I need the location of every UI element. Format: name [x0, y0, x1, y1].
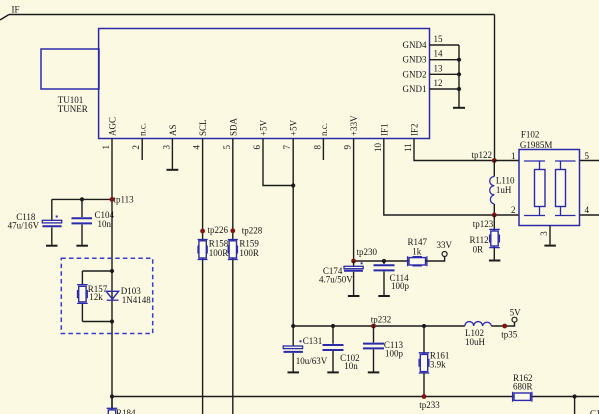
svg-text:5V: 5V [510, 308, 521, 318]
svg-text:IF1: IF1 [379, 123, 389, 136]
svg-text:GND1: GND1 [403, 84, 427, 94]
filter F102 right transducer [555, 161, 576, 216]
wire F102 pin 1 stub [494, 151, 519, 161]
pin 1 (AGC) wire and labels [101, 117, 118, 414]
svg-text:1N4148: 1N4148 [122, 295, 151, 305]
filter F102 left transducer [524, 161, 545, 216]
svg-text:+33V: +33V [349, 115, 359, 136]
junction C104 top [80, 197, 84, 201]
resistor R112 0R [470, 215, 500, 260]
tuner TU101 RF connector box [41, 49, 99, 114]
ground bar for GND pins [453, 107, 465, 109]
wire tp113 rail to capacitors [52, 198, 112, 200]
svg-text:3: 3 [539, 231, 549, 236]
svg-text:6: 6 [252, 145, 262, 150]
junction C102 top [331, 324, 335, 328]
capacitor C102 10n [323, 326, 360, 372]
svg-text:33V: 33V [437, 240, 453, 250]
junction GND1 [457, 87, 461, 91]
svg-text:10u/63V: 10u/63V [296, 356, 328, 366]
svg-text:GND4: GND4 [403, 40, 427, 50]
svg-text:R112: R112 [470, 235, 489, 245]
svg-text:100R: 100R [209, 248, 229, 258]
ground bar at pin 3 [167, 169, 179, 171]
svg-text:+5V: +5V [289, 119, 299, 136]
dashed option box [61, 258, 152, 333]
svg-text:tp228: tp228 [242, 225, 263, 235]
svg-text:5: 5 [222, 145, 232, 150]
inductor L102 10uH [465, 322, 492, 347]
svg-text:GND2: GND2 [403, 69, 427, 79]
node tp228 [230, 225, 262, 235]
pin 14 GND3 stub [403, 49, 460, 65]
capacitor C104 10n [72, 199, 115, 244]
svg-text:R184: R184 [116, 408, 136, 414]
svg-text:4: 4 [192, 145, 202, 150]
svg-text:tp233: tp233 [419, 400, 440, 410]
resistor R147 1k [408, 237, 428, 266]
node tp230 [351, 247, 377, 263]
svg-text:15: 15 [434, 34, 444, 44]
svg-text:tp232: tp232 [371, 314, 392, 324]
wire F102 pin 5 stub [580, 151, 599, 161]
ground bar C174 [348, 295, 360, 297]
svg-text:13: 13 [434, 63, 444, 73]
svg-text:R158: R158 [209, 238, 229, 248]
pin 3 (AS) stub [161, 124, 178, 169]
ground bar R112 [489, 260, 501, 262]
wire 33V feed from tp230 [354, 260, 409, 262]
pin 15 GND4 stub [403, 34, 460, 50]
svg-text:1k: 1k [412, 246, 422, 256]
junction D103 anode [110, 269, 114, 273]
terminal 33V [437, 240, 453, 257]
svg-text:GND3: GND3 [403, 55, 427, 65]
tuner TU101 block outline [99, 29, 430, 139]
junction GND3 [457, 58, 461, 62]
svg-text:3: 3 [161, 145, 171, 150]
ground bar C113 [368, 371, 380, 373]
svg-text:2: 2 [131, 145, 141, 150]
svg-text:F102: F102 [521, 129, 540, 139]
ground bar C104 [76, 245, 88, 247]
inductor L110 1uH [490, 161, 515, 216]
svg-text:tp122: tp122 [471, 150, 492, 160]
svg-text:100p: 100p [385, 348, 404, 358]
svg-text:tp113: tp113 [114, 194, 135, 204]
wire bottom bus [112, 396, 599, 398]
node tp233 [419, 394, 440, 410]
capacitor C118 47u/16V electrolytic [8, 199, 62, 244]
pin 8 (n.c.) stub [312, 123, 329, 160]
junction bus left [110, 394, 114, 398]
svg-text:10uH: 10uH [465, 337, 486, 347]
svg-text:100p: 100p [391, 281, 410, 291]
pin 5 (SDA) wire [222, 117, 239, 414]
svg-text:G1985M: G1985M [520, 140, 553, 150]
svg-text:680R: 680R [513, 382, 533, 392]
pin 11 (IF2) wire down and right to tp122 [403, 123, 494, 160]
ground bar F102 pin 3 [544, 245, 556, 247]
wire drop at right of bus [574, 397, 576, 414]
wire IF vertical drop to tp122 [494, 15, 496, 161]
resistor R158 100R [198, 238, 229, 259]
capacitor C114 100p [374, 261, 410, 295]
terminal 5V [510, 308, 521, 323]
svg-text:IF2: IF2 [410, 123, 420, 136]
resistor R161 3.9k [419, 326, 450, 397]
resistor R162 680R [513, 373, 533, 402]
svg-text:n.c.: n.c. [319, 123, 329, 136]
wire R147 to 33V terminal [426, 257, 445, 261]
pin 10 (IF1) wire down and right [373, 123, 519, 215]
pin 7 (+5V) wire down to rail [282, 119, 299, 326]
svg-text:IF: IF [12, 5, 20, 15]
svg-text:AS: AS [168, 124, 178, 136]
svg-text:SCL: SCL [198, 119, 208, 136]
ground bar C131 [288, 371, 300, 373]
node tp113 [110, 194, 135, 204]
svg-text:14: 14 [434, 49, 444, 59]
resistor R184 (clipped at bottom) [107, 397, 136, 414]
svg-text:12: 12 [434, 78, 443, 88]
ground bar C114 [378, 295, 390, 297]
pin 13 GND2 stub [403, 63, 460, 79]
wire IF horizontal top run [9, 14, 495, 16]
pin 12 GND1 stub [403, 78, 460, 94]
svg-text:7: 7 [282, 145, 292, 150]
svg-text:tp230: tp230 [357, 247, 378, 257]
junction C114 top [382, 259, 386, 263]
diode D103 1N4148 [106, 286, 151, 305]
wire GND pins vertical [458, 45, 460, 107]
filter F102 pin 3 ground stub [539, 226, 550, 245]
wire +5V rail [293, 325, 465, 327]
svg-text:47u/16V: 47u/16V [8, 220, 40, 230]
svg-text:8: 8 [312, 145, 322, 150]
wire L102 to 5V terminal [491, 322, 514, 326]
ground bar C118 [46, 245, 58, 247]
svg-text:TUNER: TUNER [58, 104, 88, 114]
pin 2 (n.c.) stub [131, 123, 148, 160]
svg-text:10n: 10n [344, 361, 358, 371]
node tp232 [371, 314, 392, 328]
net IF: entry wire from sheet edge [0, 5, 20, 21]
filter F102 G1985M block [511, 129, 580, 225]
capacitor C131 10u/63V electrolytic [283, 326, 328, 372]
svg-text:12k: 12k [89, 292, 103, 302]
svg-text:C131: C131 [303, 336, 323, 346]
pin 4 (SCL) wire [192, 119, 209, 414]
junction pins 6-7 [291, 183, 295, 187]
svg-text:n.c.: n.c. [138, 123, 148, 136]
svg-text:AGC: AGC [108, 117, 118, 136]
node tp226 [200, 225, 228, 235]
svg-text:0R: 0R [473, 245, 484, 255]
resistor R157 12k [77, 271, 108, 322]
svg-text:R159: R159 [239, 238, 259, 248]
svg-text:+5V: +5V [259, 119, 269, 136]
junction R161 top [422, 324, 426, 328]
junction GND2 [457, 72, 461, 76]
svg-text:3.9k: 3.9k [430, 360, 446, 370]
junction bus right [573, 394, 577, 398]
svg-text:2: 2 [511, 205, 516, 215]
svg-text:10: 10 [373, 143, 383, 153]
svg-text:C1: C1 [590, 409, 599, 414]
node tp35 [501, 324, 518, 340]
svg-text:tp123: tp123 [473, 219, 494, 229]
svg-text:9: 9 [343, 145, 353, 150]
junction D103 cathode [110, 319, 114, 323]
svg-text:tp226: tp226 [208, 225, 229, 235]
svg-text:100R: 100R [239, 248, 259, 258]
capacitor C113 100p [363, 326, 404, 372]
svg-text:4: 4 [585, 205, 590, 215]
ground bar C102 [327, 371, 339, 373]
svg-text:5: 5 [585, 151, 590, 161]
resistor R159 100R [228, 238, 260, 259]
wire F102 pin 4 stub [580, 205, 599, 215]
node tp123 [473, 213, 497, 230]
svg-text:SDA: SDA [228, 117, 238, 136]
wire R157 top branch [82, 270, 112, 272]
wire R157 bottom branch [82, 321, 112, 323]
pin 6 (+5V) wire with jog to pin 7 [252, 119, 293, 185]
junction pin7 rail [291, 324, 295, 328]
capacitor C1xx (clipped at edge) [590, 409, 599, 414]
svg-text:1uH: 1uH [496, 185, 512, 195]
svg-text:tp35: tp35 [501, 329, 518, 339]
capacitor C174 4.7u/50V electrolytic [319, 261, 363, 295]
svg-text:10n: 10n [98, 219, 112, 229]
svg-text:11: 11 [403, 143, 413, 152]
svg-text:1: 1 [511, 151, 516, 161]
svg-text:4.7u/50V: 4.7u/50V [319, 275, 353, 285]
node tp122 [471, 150, 496, 163]
pin 9 (+33V) wire down to tp230 [343, 115, 360, 261]
svg-text:1: 1 [101, 145, 111, 150]
